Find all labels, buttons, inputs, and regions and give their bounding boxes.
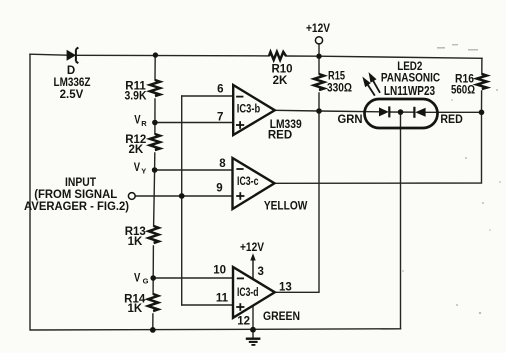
svg-text:560Ω: 560Ω: [451, 85, 475, 97]
svg-text:INPUT: INPUT: [65, 177, 96, 189]
svg-text:2.5V: 2.5V: [60, 89, 84, 101]
svg-text:R10: R10: [271, 64, 292, 76]
svg-text:LM336Z: LM336Z: [54, 77, 91, 89]
svg-text:V: V: [134, 162, 141, 174]
svg-text:R15: R15: [328, 71, 345, 83]
svg-text:+12V: +12V: [306, 23, 330, 35]
svg-text:11: 11: [216, 292, 229, 304]
svg-text:2K: 2K: [273, 75, 288, 87]
svg-text:IC3-c: IC3-c: [237, 176, 259, 188]
svg-text:9: 9: [216, 182, 222, 194]
svg-text:AVERAGER - FIG.2): AVERAGER - FIG.2): [24, 201, 129, 213]
svg-text:6: 6: [217, 84, 223, 96]
svg-text:3.9K: 3.9K: [125, 91, 148, 103]
svg-text:Y: Y: [141, 167, 146, 176]
svg-text:12: 12: [237, 316, 250, 328]
svg-text:V: V: [134, 273, 141, 285]
svg-text:330Ω: 330Ω: [327, 83, 352, 95]
svg-text:RED: RED: [268, 129, 292, 141]
svg-text:3: 3: [258, 266, 264, 278]
svg-text:GREEN: GREEN: [263, 311, 300, 323]
svg-text:LED2: LED2: [397, 61, 422, 73]
svg-text:1K: 1K: [127, 303, 142, 315]
svg-text:LN11WP23: LN11WP23: [384, 83, 435, 98]
svg-text:10: 10: [213, 265, 226, 277]
svg-text:7: 7: [217, 111, 223, 123]
svg-text:D: D: [67, 65, 75, 77]
svg-text:1K: 1K: [128, 236, 143, 248]
svg-text:IC3-d: IC3-d: [237, 287, 259, 299]
svg-text:13: 13: [279, 282, 292, 294]
svg-text:GRN: GRN: [338, 114, 363, 126]
svg-text:IC3-b: IC3-b: [237, 104, 260, 116]
svg-text:YELLOW: YELLOW: [264, 201, 308, 213]
svg-text:(FROM SIGNAL: (FROM SIGNAL: [34, 189, 117, 201]
svg-text:G: G: [143, 277, 149, 286]
svg-text:V: V: [134, 115, 141, 127]
svg-text:RED: RED: [440, 114, 462, 126]
svg-text:2K: 2K: [128, 144, 143, 156]
svg-text:R: R: [141, 119, 147, 128]
svg-text:8: 8: [219, 158, 226, 170]
svg-text:+12V: +12V: [240, 242, 264, 254]
